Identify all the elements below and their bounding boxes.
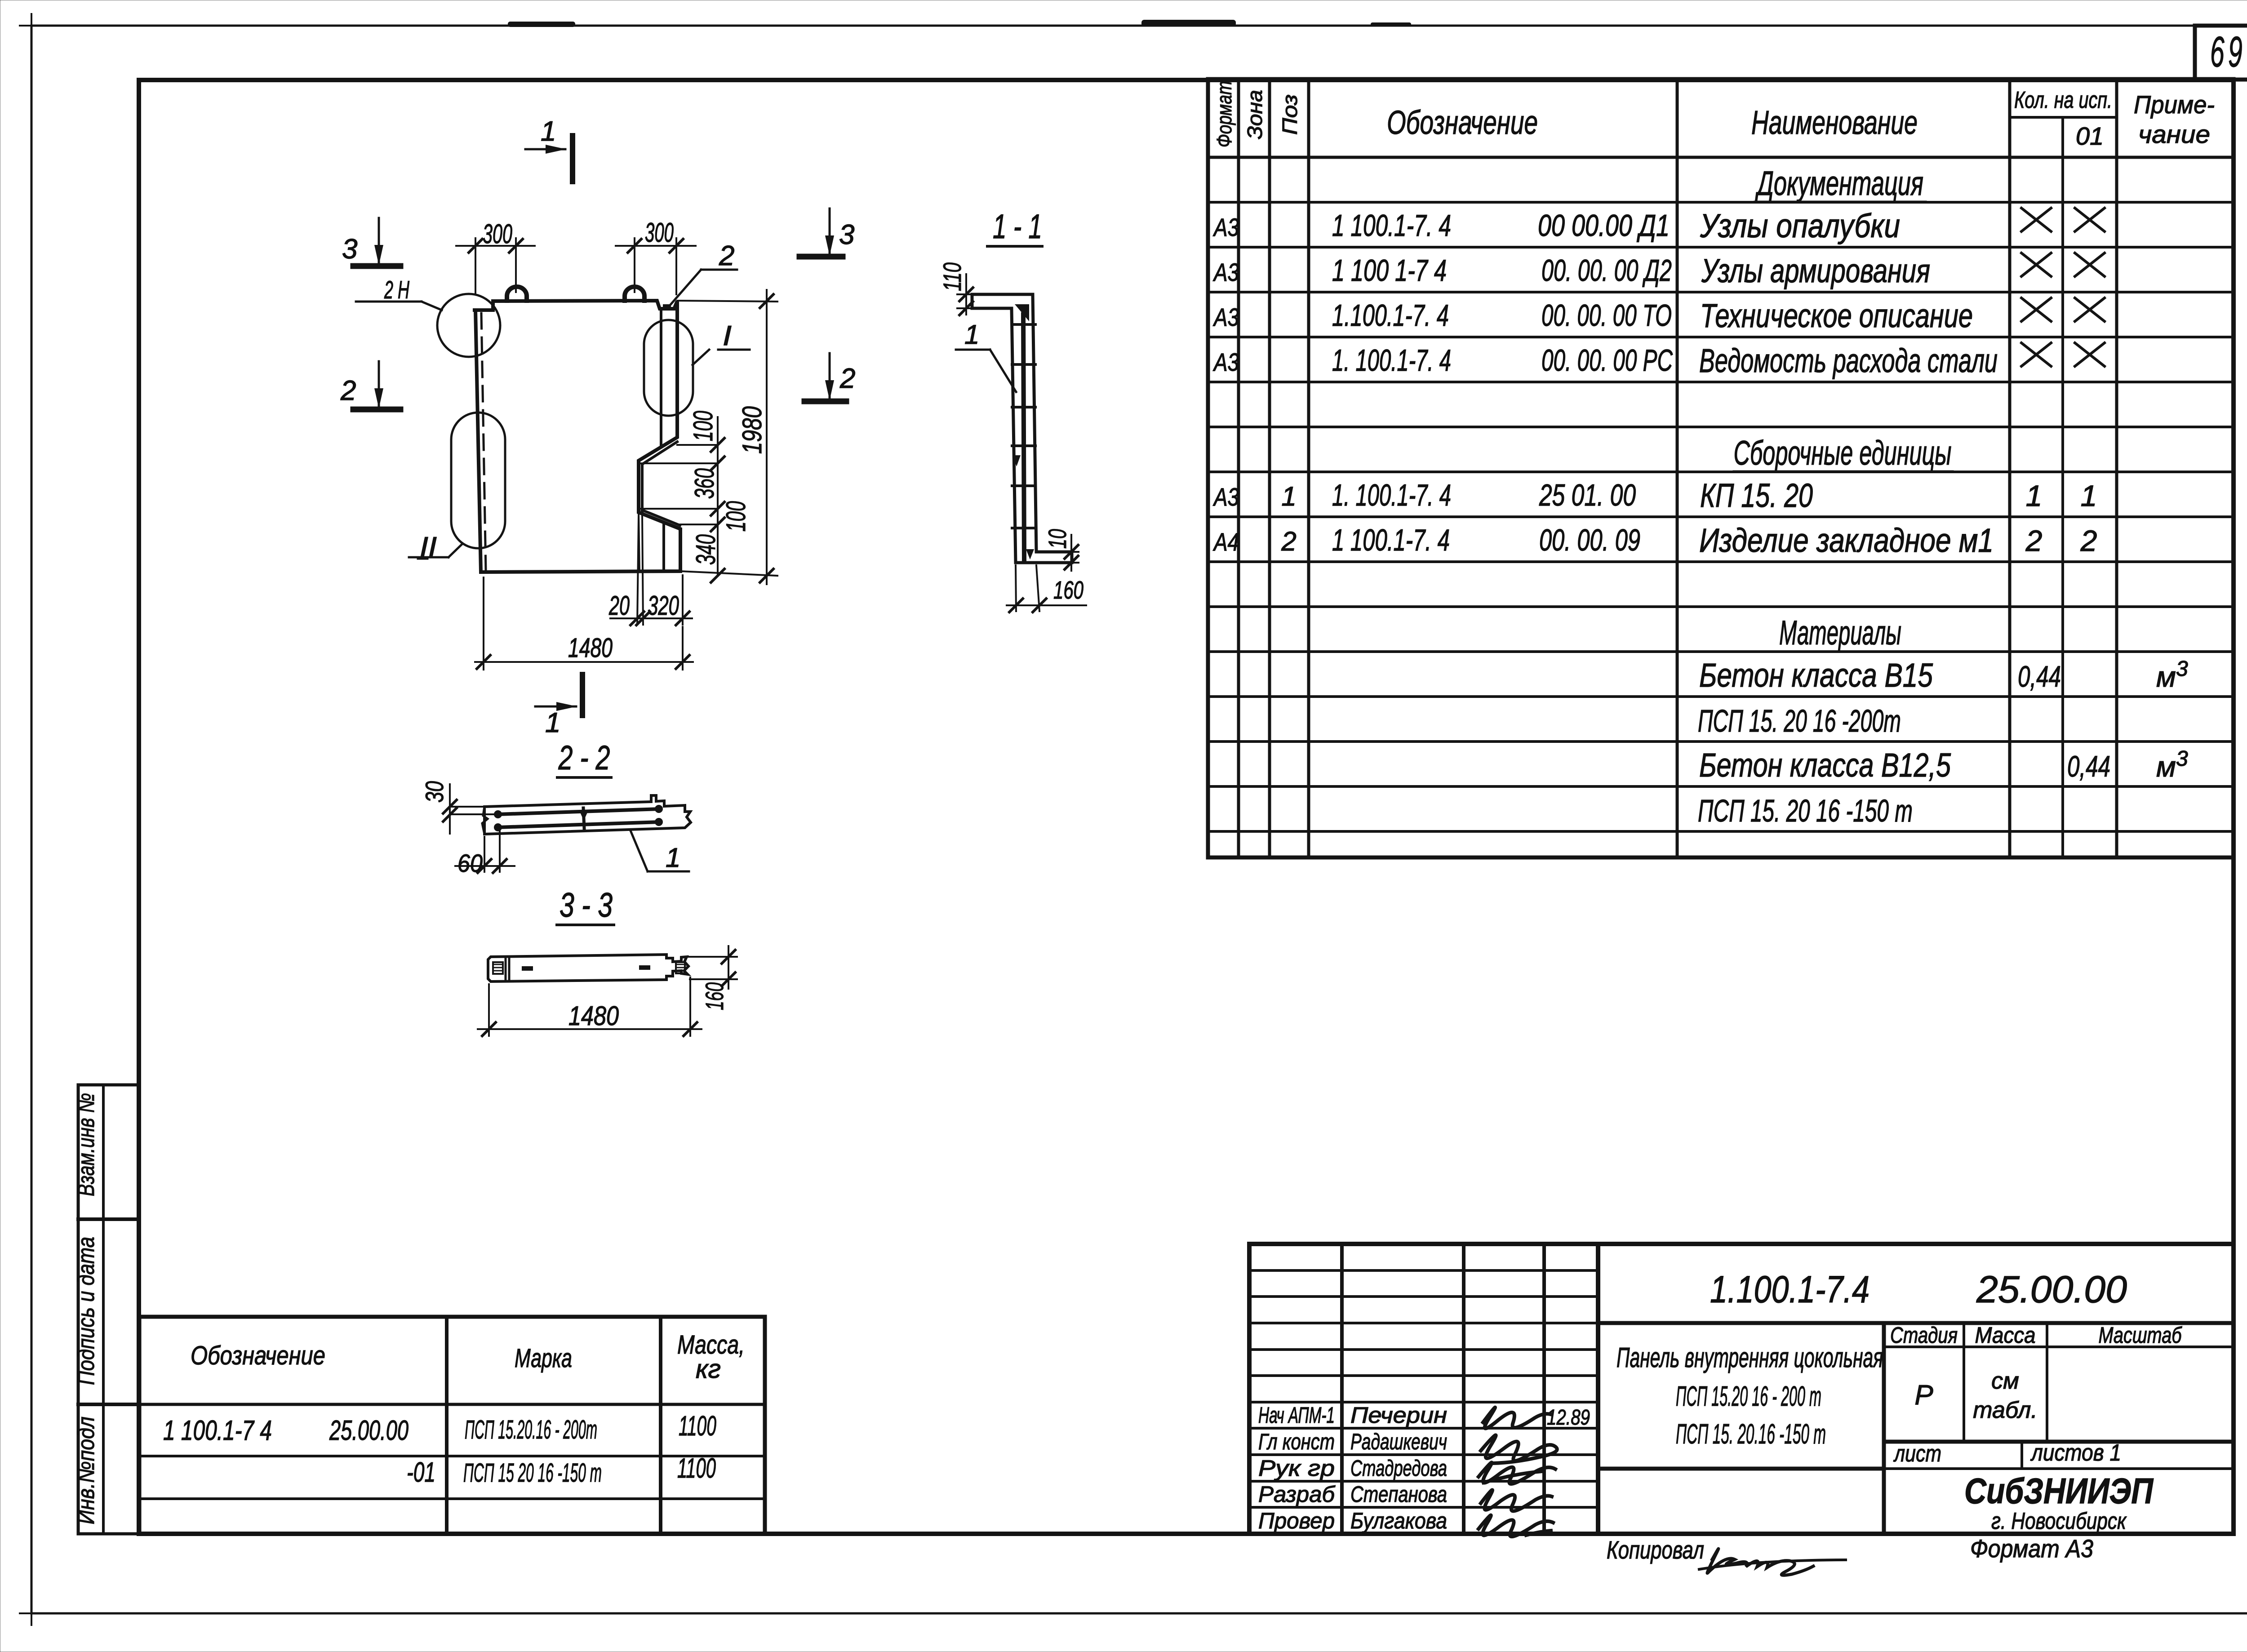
svg-text:1 - 1: 1 - 1 [993,208,1042,246]
svg-text:1: 1 [2026,479,2043,512]
left margin strip boxes [78,1085,139,1534]
section marker 1 bottom [580,675,585,715]
svg-text:лист: лист [1893,1441,1941,1467]
svg-text:Масса: Масса [1975,1323,2036,1348]
svg-text:СибЗНИИЭП: СибЗНИИЭП [1964,1471,2154,1511]
title block outline [1249,1244,2234,1534]
svg-text:А3: А3 [1213,213,1239,241]
corner register marks [20,25,43,27]
svg-text:листов 1: листов 1 [2030,1440,2121,1466]
svg-text:20: 20 [608,591,630,621]
detail stadium II [451,413,505,548]
lifting loop left [507,287,527,301]
dim 1480 bottom [483,577,484,670]
svg-text:00. 00. 00 ТО: 00. 00. 00 ТО [1541,298,1672,333]
svg-text:0,44: 0,44 [2018,660,2061,693]
svg-text:2: 2 [340,375,356,406]
detail circle 2H [437,294,500,357]
svg-text:табл.: табл. [1973,1397,2038,1423]
svg-text:Изделие закладное м1: Изделие закладное м1 [1699,522,1994,559]
svg-text:Рук гр: Рук гр [1258,1456,1335,1481]
spec table header lines [2010,116,2117,119]
svg-text:Р: Р [1914,1380,1933,1411]
svg-text:м: м [2156,751,2176,783]
svg-text:25 01. 00: 25 01. 00 [1539,478,1636,512]
svg-text:ПСП 15. 20 16 -150 т: ПСП 15. 20 16 -150 т [1698,793,1913,828]
svg-text:160: 160 [1053,576,1084,604]
svg-text:Узлы опалубки: Узлы опалубки [1700,207,1900,244]
title block: стадия масса масштаб [1884,1346,2234,1348]
svg-text:Бетон класса В15: Бетон класса В15 [1699,657,1933,694]
svg-text:110: 110 [938,262,966,291]
svg-text:3: 3 [342,234,357,265]
panel elevation: outline [473,301,680,572]
dim chain 100/360/100/340 [717,417,719,576]
svg-text:3: 3 [2176,747,2188,771]
svg-text:Марка: Марка [515,1344,572,1373]
dim 20/320 bottom [637,517,639,625]
svg-text:1 100.1-7 4: 1 100.1-7 4 [163,1415,272,1446]
svg-text:I: I [723,320,732,351]
svg-text:А3: А3 [1213,348,1239,376]
svg-text:А3: А3 [1213,303,1239,331]
section 3-3 bar outline [488,955,688,981]
svg-text:Зона: Зона [1243,90,1266,139]
svg-text:Документация: Документация [1754,164,1923,203]
signatures scribbles [1483,1408,1550,1429]
svg-text:ПСП 15. 20 16 -200т: ПСП 15. 20 16 -200т [1698,703,1901,738]
svg-text:ПСП 15.20 16 - 200 т: ПСП 15.20 16 - 200 т [1676,1381,1821,1412]
svg-text:ПСП 15.20.16 - 200т: ПСП 15.20.16 - 200т [465,1415,597,1444]
svg-text:10: 10 [1043,529,1071,549]
section 2-2 left break [482,807,488,834]
svg-text:Инв.№подл: Инв.№подл [73,1417,99,1524]
svg-text:320: 320 [648,591,679,621]
svg-text:Булгакова: Булгакова [1350,1508,1447,1533]
svg-text:-01: -01 [407,1457,435,1488]
svg-text:1980: 1980 [737,406,767,454]
title block: name box [1598,1467,1884,1471]
section 1-1 dim 10 [1037,551,1079,553]
section 1-1 dim 160 [1016,565,1016,611]
svg-text:Сборочные единицы: Сборочные единицы [1734,434,1952,472]
svg-text:А3: А3 [1213,258,1239,286]
svg-text:160: 160 [700,982,728,1010]
section 2-2 dim 30 [450,806,482,808]
svg-text:Обозначение: Обозначение [1387,104,1538,141]
svg-text:Степанова: Степанова [1350,1482,1447,1507]
section 2-2 rebar label 1 [630,830,648,871]
panel elevation: top-right notch insert 2 [663,304,671,310]
svg-text:1480: 1480 [568,1001,619,1031]
svg-text:1: 1 [666,843,680,873]
svg-text:Подпись и дата: Подпись и дата [73,1237,99,1385]
svg-text:340: 340 [691,534,721,565]
svg-text:3: 3 [2176,657,2188,681]
section 3-3 dim 1480 [488,984,490,1036]
svg-text:1.100.1-7. 4: 1.100.1-7. 4 [1332,298,1449,333]
spec table column lines [1237,79,1240,857]
sheet number box 69 [2195,26,2247,80]
svg-text:12.89: 12.89 [1547,1406,1590,1430]
svg-text:1100: 1100 [677,1453,716,1484]
section 3-3 left embedded part [505,957,507,981]
svg-text:0,44: 0,44 [2067,750,2110,783]
svg-text:Узлы армирования: Узлы армирования [1701,252,1930,289]
svg-text:1 100.1-7. 4: 1 100.1-7. 4 [1332,209,1451,243]
svg-text:00 00.00 Д1: 00 00.00 Д1 [1538,209,1670,243]
svg-text:Панель внутренняя цокольная: Панель внутренняя цокольная [1616,1342,1883,1373]
dim 300 left [475,238,476,294]
svg-text:Обозначение: Обозначение [191,1341,325,1370]
section 2-2 slab outline [484,795,691,834]
svg-text:00. 00. 00 Д2: 00. 00. 00 Д2 [1541,253,1672,288]
section 1-1 profile [972,294,1072,563]
svg-text:1.100.1-7.4: 1.100.1-7.4 [1710,1268,1870,1310]
svg-text:100: 100 [721,501,751,532]
section 2-2 dim 60 [484,837,485,872]
svg-text:Провер: Провер [1258,1508,1335,1533]
svg-text:1: 1 [964,320,979,350]
svg-text:1 100.1-7. 4: 1 100.1-7. 4 [1332,523,1450,557]
svg-text:69: 69 [2210,28,2246,76]
svg-text:360: 360 [689,468,719,499]
section 2-2 rebar mesh [498,809,660,814]
title block: СибЗНИИЭП [1884,1467,2234,1470]
section 3-3 dim 160 [688,956,737,958]
svg-text:Копировал: Копировал [1607,1536,1704,1564]
svg-text:кг: кг [696,1354,721,1384]
panel elevation: inner edge lines right side [660,309,662,447]
svg-text:25.00.00: 25.00.00 [329,1415,409,1446]
svg-text:Бетон класса В12,5: Бетон класса В12,5 [1699,746,1951,784]
svg-text:01: 01 [2076,122,2104,150]
svg-text:Формат А3: Формат А3 [1970,1534,2093,1563]
svg-text:Наименование: Наименование [1751,104,1918,141]
svg-text:300: 300 [645,218,674,248]
section marker 2 left [353,407,400,413]
title block signature grid [1340,1244,1344,1534]
svg-text:2: 2 [719,240,734,271]
svg-text:м: м [2156,661,2176,693]
title block: doc number box [1598,1321,2234,1325]
svg-text:А3: А3 [1213,483,1239,511]
spec table row lines [1208,201,2234,204]
svg-text:Нач АПМ-1: Нач АПМ-1 [1258,1403,1335,1428]
section marker 3 right [799,254,843,260]
svg-text:2: 2 [2080,524,2097,557]
svg-text:2 - 2: 2 - 2 [558,739,610,777]
svg-text:Ведомость расхода стали: Ведомость расхода стали [1699,342,1998,379]
svg-text:Техническое описание: Техническое описание [1700,297,1973,334]
title block: лист / листов [1884,1440,2234,1444]
section marker 3 left [353,263,400,269]
bottom-left marks table outline [139,1317,765,1534]
svg-text:1: 1 [541,116,556,147]
svg-text:г. Новосибирск: г. Новосибирск [1991,1508,2127,1534]
svg-text:2: 2 [2025,524,2043,557]
svg-text:1480: 1480 [568,633,613,663]
svg-text:60: 60 [457,849,483,877]
svg-text:Разраб: Разраб [1258,1482,1336,1507]
svg-text:Приме-: Приме- [2134,90,2215,119]
svg-text:2: 2 [839,363,855,394]
svg-text:2: 2 [1281,526,1296,556]
svg-text:1. 100.1-7. 4: 1. 100.1-7. 4 [1332,478,1451,512]
svg-text:Стадия: Стадия [1890,1323,1958,1348]
svg-text:00. 00. 00 РС: 00. 00. 00 РС [1541,343,1673,377]
svg-text:2 Н: 2 Н [384,275,409,304]
svg-text:25.00.00: 25.00.00 [1976,1268,2127,1310]
svg-text:Формат: Формат [1212,81,1236,147]
svg-text:Кол. на исп.: Кол. на исп. [2014,87,2112,113]
svg-text:Стадредова: Стадредова [1350,1456,1447,1481]
svg-text:Поз: Поз [1278,94,1301,135]
svg-text:1100: 1100 [679,1411,716,1442]
svg-text:см: см [1991,1368,2019,1394]
svg-text:100: 100 [688,411,718,441]
svg-text:00. 00. 09: 00. 00. 09 [1539,523,1640,557]
svg-text:чание: чание [2138,120,2210,148]
dim 1980 right [677,301,777,302]
svg-text:1: 1 [1281,481,1296,511]
section 3-3 right embedded part [676,962,685,973]
svg-text:Взам.инв №: Взам.инв № [73,1093,99,1196]
svg-text:300: 300 [483,219,512,249]
section 1-1 rebar [1023,315,1024,560]
svg-text:ПСП 15 20 16 -150 т: ПСП 15 20 16 -150 т [463,1458,602,1488]
svg-text:1. 100.1-7. 4: 1. 100.1-7. 4 [1332,343,1451,377]
svg-text:Печерин: Печерин [1350,1403,1447,1428]
svg-text:1: 1 [2081,479,2097,512]
svg-text:ПСП 15. 20.16 -150 т: ПСП 15. 20.16 -150 т [1676,1419,1826,1450]
section marker 2 right [804,399,846,404]
svg-text:1 100 1-7 4: 1 100 1-7 4 [1332,253,1447,288]
svg-text:30: 30 [420,781,449,803]
svg-text:А4: А4 [1213,528,1239,556]
panel elevation: dashed line along left edge [481,313,486,571]
svg-text:Гл конст: Гл конст [1258,1429,1335,1454]
svg-text:Радашкевич: Радашкевич [1350,1429,1447,1454]
section 3-3 slots [522,966,533,971]
svg-text:1: 1 [545,707,560,738]
dim 300 right [634,238,635,292]
svg-text:Масштаб: Масштаб [2099,1323,2182,1348]
svg-text:Материалы: Материалы [1779,614,1901,652]
svg-text:КП 15. 20: КП 15. 20 [1700,477,1813,514]
section marker 1 top [570,136,575,182]
scan smudges on top border [508,22,575,27]
spec table outline [1208,79,2234,857]
section 1-1 dim 110 [957,293,971,295]
svg-text:3: 3 [839,219,854,250]
lifting loop right [625,287,644,301]
detail stadium I [644,320,693,416]
panel elevation: recess edge extensions to bottom (thin) [639,512,639,572]
svg-text:3 - 3: 3 - 3 [560,886,613,924]
